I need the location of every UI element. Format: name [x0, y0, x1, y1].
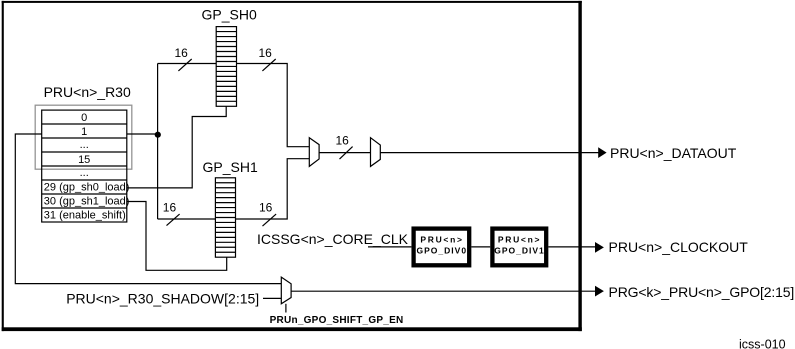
svg-text:31 (enable_shift): 31 (enable_shift)	[44, 210, 126, 222]
wire node vertical bus	[157, 64, 159, 220]
svg-text:...: ...	[80, 167, 89, 179]
wire GP_SH1 output to mux	[236, 159, 311, 219]
svg-text:ICSSG<n>_CORE_CLK: ICSSG<n>_CORE_CLK	[257, 231, 409, 247]
mux U3 (GPO output select)	[281, 277, 291, 304]
wire CORE_CLK to GPO_DIV0	[368, 246, 411, 248]
svg-text:16: 16	[336, 134, 350, 148]
arrow PRG<k>_PRU<n>_GPO[2:15]	[595, 286, 604, 297]
outer border frame of ICSSG block	[2, 1, 582, 331]
svg-text:PRU<n>_DATAOUT: PRU<n>_DATAOUT	[610, 145, 737, 161]
mux U1 (GP_SH0/GP_SH1 select)	[309, 138, 319, 167]
wire GPO to pin	[291, 290, 595, 292]
wire R30 shadow tap to output mux	[15, 134, 281, 284]
bus width label 16 at GP_SH0 input	[175, 46, 192, 71]
bus width label 16 on DATAOUT path	[336, 134, 353, 160]
register table PRU<n>_R30	[42, 110, 127, 222]
arrow PRU<n>_CLOCKOUT	[595, 242, 604, 253]
svg-text:icss-010: icss-010	[739, 337, 786, 349]
divider block PRU<n> GPO_DIV1	[492, 229, 546, 266]
wire to GP_SH0 input	[158, 63, 217, 65]
svg-text:15: 15	[78, 154, 90, 166]
wire R30 output to node	[127, 133, 158, 135]
divider block PRU<n> GPO_DIV0	[414, 229, 470, 266]
svg-text:16: 16	[163, 201, 177, 215]
svg-text:30 (gp_sh1_load): 30 (gp_sh1_load)	[44, 196, 130, 208]
wire DATAOUT to pin	[380, 152, 598, 154]
wire GPO_DIV0 to GPO_DIV1	[471, 246, 490, 248]
svg-text:PRG<k>_PRU<n>_GPO[2:15]: PRG<k>_PRU<n>_GPO[2:15]	[609, 284, 795, 300]
svg-text:16: 16	[259, 46, 273, 60]
gray highlight box around R30 bits 0..15	[35, 105, 132, 169]
wire CLOCKOUT to pin	[548, 246, 595, 248]
svg-text:PRU<n>_CLOCKOUT: PRU<n>_CLOCKOUT	[609, 239, 749, 255]
svg-text:16: 16	[259, 201, 273, 215]
bus width label 16 at GP_SH1 output	[259, 201, 276, 227]
shift register GP_SH1	[215, 178, 235, 257]
svg-text:29 (gp_sh0_load): 29 (gp_sh0_load)	[44, 182, 130, 194]
svg-text:GPO_DIV0: GPO_DIV0	[417, 245, 468, 255]
svg-text:GPO_DIV1: GPO_DIV1	[494, 245, 545, 255]
svg-text:PRU<n>: PRU<n>	[420, 234, 463, 244]
wire gp_sh1_load from row 30 to GP_SH1	[127, 202, 227, 271]
shift register GP_SH0	[216, 27, 236, 107]
buffer U2 on DATAOUT path	[371, 138, 381, 167]
svg-text:GP_SH1: GP_SH1	[203, 159, 258, 175]
svg-text:PRU<n>_R30_SHADOW[2:15]: PRU<n>_R30_SHADOW[2:15]	[66, 291, 259, 307]
svg-text:PRU<n>_R30: PRU<n>_R30	[44, 84, 131, 100]
svg-text:16: 16	[175, 46, 189, 60]
svg-text:PRU<n>: PRU<n>	[498, 234, 541, 244]
node junction dot	[155, 132, 161, 138]
svg-text:...: ...	[80, 139, 89, 151]
wire gp_sh0_load from row 29 to GP_SH0	[127, 106, 226, 188]
wire to GP_SH1 input	[158, 218, 216, 220]
wire mux U1 output to buffer	[319, 152, 370, 154]
svg-text:PRUn_GPO_SHIFT_GP_EN: PRUn_GPO_SHIFT_GP_EN	[270, 315, 404, 326]
wire GP_SH0 output to mux	[237, 64, 311, 147]
bus width label 16 at GP_SH0 output	[259, 46, 276, 71]
svg-text:1: 1	[81, 126, 87, 138]
wire SHADOW label to output mux	[263, 297, 281, 299]
arrow PRU<n>_DATAOUT	[598, 147, 606, 158]
svg-text:GP_SH0: GP_SH0	[202, 7, 257, 23]
svg-text:0: 0	[81, 112, 87, 124]
wire mux U3 select	[285, 304, 287, 313]
bus width label 16 at GP_SH1 input	[163, 201, 180, 226]
